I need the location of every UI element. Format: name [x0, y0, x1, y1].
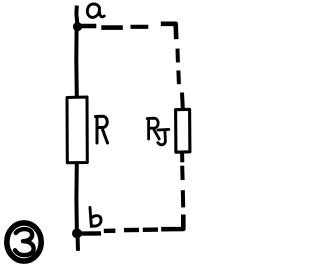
wire: resistor R down to node b [74, 163, 79, 233]
value label subscript J (of RJ) [158, 129, 169, 144]
wire: top dashed link, node a to right branch elbow [78, 24, 96, 29]
resistor R (left branch) [67, 97, 87, 163]
resistor RJ (right branch) [176, 109, 190, 152]
wire: node a down to resistor R [74, 27, 79, 97]
value label R [96, 116, 108, 143]
figure number: circled 3 [7, 223, 41, 261]
node a (junction dot) [73, 22, 82, 31]
wire: right dashed branch down to resistor RJ [176, 49, 180, 63]
node label b [90, 208, 101, 227]
wire: stub above node a [76, 6, 77, 27]
wire: bottom dashed link back to node b [78, 231, 101, 236]
value label R (of RJ) [147, 118, 159, 139]
wire: lead below resistor RJ [180, 153, 184, 162]
wire: stub below node b [76, 234, 81, 251]
node label a [87, 4, 104, 17]
node b (junction dot) [72, 228, 82, 238]
wire: right dashed branch down to bottom elbow [180, 166, 184, 180]
